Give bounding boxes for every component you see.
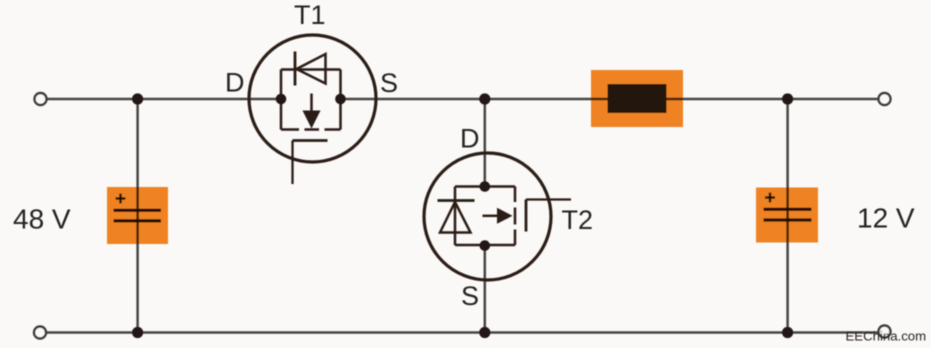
capacitor C2 polarity plus (765, 193, 775, 203)
capacitor C1 polarity plus (116, 194, 126, 204)
wire T2 source branch (484, 245, 487, 333)
node input bottom junction (132, 327, 143, 338)
terminal output negative (879, 326, 891, 338)
node T1 source dot (335, 94, 346, 105)
terminal output positive (879, 93, 891, 105)
capacitor C1 plates (114, 210, 162, 221)
wire top rail left segment (47, 98, 281, 101)
node output top junction (782, 93, 793, 104)
node switch bottom junction (479, 327, 490, 338)
node T2 source dot (480, 240, 491, 251)
wire left capacitor branch (136, 99, 139, 333)
wire top rail right segment (341, 98, 879, 101)
node T2 drain dot (480, 181, 491, 192)
svg-text:EEChina.com: EEChina.com (846, 329, 927, 344)
svg-text:T2: T2 (562, 205, 594, 235)
terminal input negative (34, 327, 46, 339)
svg-text:T1: T1 (294, 0, 326, 30)
node switch top junction (479, 93, 490, 104)
inductor L1 orange highlight (591, 70, 683, 127)
capacitor C2 plates (764, 209, 812, 220)
svg-text:D: D (225, 68, 245, 98)
svg-text:S: S (380, 68, 398, 98)
svg-text:S: S (461, 281, 479, 311)
transistor Q2 (T2) (424, 153, 571, 280)
node output bottom junction (782, 327, 793, 338)
capacitor C1 orange highlight (107, 187, 168, 244)
wire right capacitor branch (786, 99, 789, 333)
node T1 drain dot (276, 94, 287, 105)
svg-text:48 V: 48 V (13, 204, 71, 235)
capacitor C2 orange highlight (756, 188, 818, 243)
wire bottom rail (47, 331, 879, 334)
svg-text:12 V: 12 V (857, 203, 915, 234)
node input top junction (132, 93, 143, 104)
inductor L1 body (608, 84, 667, 113)
transistor Q1 (T1) (249, 35, 376, 184)
svg-text:D: D (460, 124, 480, 154)
wire T2 drain branch (484, 99, 487, 187)
terminal input positive (35, 93, 47, 105)
